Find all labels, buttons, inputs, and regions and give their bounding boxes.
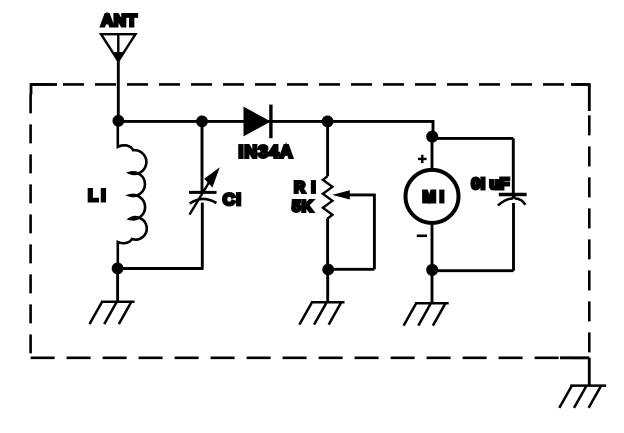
ground below M1 <box>404 303 449 325</box>
wire wiper to bottom <box>328 194 374 270</box>
plus sign <box>418 155 427 163</box>
node R1 top junction <box>322 116 334 128</box>
label R1 <box>294 180 322 197</box>
minus sign <box>417 235 427 238</box>
wire top bus <box>118 120 433 123</box>
antenna ANT <box>101 34 136 62</box>
diode D1 1N34A <box>245 105 271 139</box>
wire meter to ground <box>431 270 434 303</box>
wire C1 bottom lead <box>201 203 204 269</box>
meter M1 <box>406 170 459 223</box>
svg-text:LI: LI <box>88 187 109 205</box>
svg-text:RI: RI <box>294 180 322 197</box>
shield enclosure (dashed box) <box>31 84 590 357</box>
svg-text:IN34A: IN34A <box>239 141 294 161</box>
inductor L1 <box>118 120 147 269</box>
wire meter top lead <box>431 137 434 171</box>
wire bottom L1-C1 <box>118 267 204 270</box>
R1 wiper arrow <box>332 190 374 199</box>
node R1 bottom junction <box>322 264 334 276</box>
ground below L1 <box>90 302 135 324</box>
wire capacitor branch top <box>432 138 513 193</box>
svg-text:CI: CI <box>223 190 243 209</box>
node L1 bottom junction <box>112 263 124 275</box>
label C1 <box>223 190 243 209</box>
ground earth (bottom right) <box>559 386 606 408</box>
label M1 <box>423 189 448 206</box>
node meter top junction <box>426 131 438 143</box>
node A (antenna / L1 / top bus junction) <box>113 115 125 127</box>
node C1 top junction <box>196 116 208 128</box>
capacitor C1 (variable) <box>189 167 220 214</box>
label L1 <box>88 187 109 205</box>
wire C1 top lead <box>201 121 204 192</box>
wire L1 to ground <box>116 268 119 301</box>
wire top bus corner to meter node <box>432 120 435 137</box>
svg-text:5K: 5K <box>292 199 314 216</box>
wire capacitor bottom lead <box>432 203 513 271</box>
label 5K <box>292 199 314 216</box>
ground below R1 <box>299 302 344 324</box>
label 1N34A <box>239 141 294 161</box>
svg-text:0I uF: 0I uF <box>471 176 510 193</box>
label 01uF <box>471 176 510 193</box>
label ANT <box>101 11 138 30</box>
svg-text:ANT: ANT <box>101 11 138 30</box>
capacitor C2 .01uF <box>498 195 527 206</box>
node meter bottom junction <box>426 264 438 276</box>
wire meter bottom lead <box>431 223 434 270</box>
wire antenna lead <box>117 60 120 121</box>
svg-text:MI: MI <box>423 189 448 206</box>
wire enclosure to earth <box>588 358 591 386</box>
resistor R1 (potentiometer) <box>323 121 333 269</box>
wire R1 to ground <box>326 270 329 303</box>
